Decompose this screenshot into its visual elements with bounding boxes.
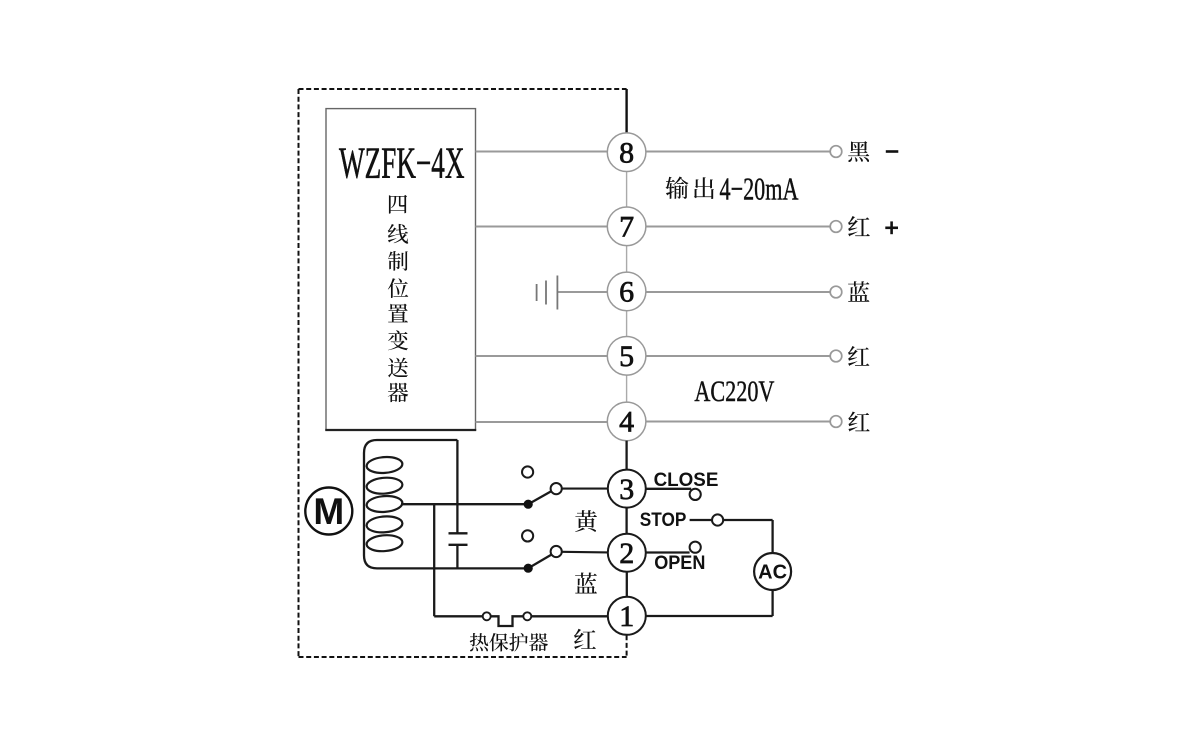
svg-text:2: 2 (619, 537, 634, 570)
svg-text:3: 3 (619, 473, 634, 506)
svg-text:5: 5 (619, 340, 634, 373)
svg-text:AC220V: AC220V (694, 375, 774, 408)
svg-text:WZFK−4X: WZFK−4X (339, 139, 465, 188)
svg-text:STOP: STOP (640, 510, 687, 531)
svg-text:7: 7 (619, 211, 634, 244)
svg-text:4: 4 (619, 406, 634, 439)
svg-text:1: 1 (619, 600, 634, 633)
svg-text:6: 6 (619, 276, 634, 309)
svg-text:CLOSE: CLOSE (654, 470, 719, 491)
svg-text:4−20mA: 4−20mA (720, 170, 799, 206)
svg-text:AC: AC (758, 562, 787, 584)
svg-text:8: 8 (619, 136, 634, 169)
svg-text:OPEN: OPEN (654, 553, 705, 574)
svg-text:M: M (313, 491, 344, 532)
